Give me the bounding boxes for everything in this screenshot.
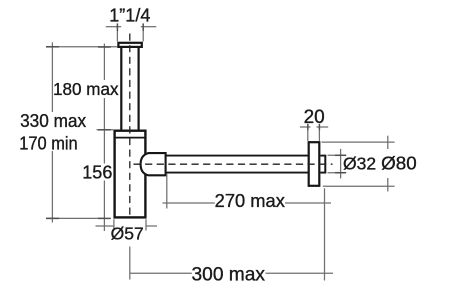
inlet flange nut bbox=[118, 43, 141, 47]
svg-text:156: 156 bbox=[82, 162, 112, 182]
svg-text:300 max: 300 max bbox=[192, 265, 266, 286]
extension line 300 left (body centerline) bbox=[129, 247, 131, 280]
tick 180 top bbox=[98, 46, 111, 48]
extension line 270 left bbox=[166, 174, 168, 209]
dimension line 1"1/4 left segment bbox=[106, 26, 121, 28]
dimension line 1"1/4 right segment bbox=[141, 26, 157, 28]
svg-text:170 min: 170 min bbox=[19, 133, 77, 153]
wall flange rosette bbox=[309, 142, 320, 186]
extension line at body top level (180 max bottom) bbox=[97, 129, 114, 131]
tick 330 top bbox=[46, 46, 59, 48]
dimension line 300 right segment bbox=[266, 272, 334, 274]
extension line flange right corner bbox=[142, 31, 144, 42]
tick 156 bottom bbox=[98, 217, 111, 219]
svg-text:1”1/4: 1”1/4 bbox=[109, 5, 150, 25]
tick 20 left bbox=[307, 124, 309, 131]
outlet stub end wall bbox=[324, 155, 326, 174]
dimension line 330max/170min upper segment bbox=[51, 42, 53, 112]
extension line 20 left bbox=[307, 130, 309, 141]
dimension line 270 left segment bbox=[163, 202, 215, 204]
tick right 1"1/4 bbox=[142, 23, 144, 31]
dimension line 270 right segment bbox=[285, 202, 331, 204]
horizontal pipe top wall bbox=[166, 155, 309, 157]
dimension line 180/156 upper segment bbox=[103, 44, 105, 80]
svg-text:20: 20 bbox=[304, 107, 325, 128]
svg-text:270 max: 270 max bbox=[215, 191, 285, 211]
extension line at body bottom level (to 330 dim) bbox=[46, 217, 104, 219]
svg-text:Ø57: Ø57 bbox=[111, 224, 144, 244]
trap body collar line bbox=[114, 137, 146, 139]
extension line pipe bottom (O32) bbox=[328, 172, 347, 174]
outlet stub bottom wall bbox=[320, 172, 325, 174]
dimension line O57 left segment bbox=[96, 225, 114, 227]
dimension line O32 bbox=[340, 149, 342, 179]
tick O32 bottom bbox=[335, 172, 346, 174]
inlet pipe left wall bbox=[120, 48, 122, 131]
tick 20 right bbox=[318, 124, 320, 131]
extension line O57 right bbox=[145, 219, 147, 230]
extension line flange left corner bbox=[116, 31, 118, 42]
svg-text:Ø80: Ø80 bbox=[381, 154, 417, 174]
horizontal pipe bottom wall bbox=[166, 172, 309, 174]
dimension line 180/156 lower segment bbox=[103, 181, 105, 232]
svg-text:330 max: 330 max bbox=[20, 111, 86, 131]
dimension line 20 right segment bbox=[317, 126, 329, 128]
extension line pipe top (O32) bbox=[328, 154, 347, 156]
extension line O57 left bbox=[113, 219, 115, 230]
extension line 20 right bbox=[318, 130, 320, 141]
tick 330 bottom bbox=[46, 217, 59, 219]
tick 180 bottom / 156 top bbox=[98, 129, 111, 131]
dimension line O80 lower segment bbox=[387, 178, 389, 192]
extension line right shared 270/300 bbox=[324, 188, 326, 280]
svg-text:Ø32: Ø32 bbox=[343, 154, 376, 174]
extension line at flange bottom level (to 330/180 dims) bbox=[46, 46, 117, 48]
dimension line 180/156 middle segment bbox=[103, 98, 105, 164]
svg-text:180 max: 180 max bbox=[53, 79, 119, 99]
tick left 1"1/4 bbox=[116, 23, 118, 31]
dimension line 300 left segment bbox=[130, 272, 192, 274]
dimension line O57 right segment bbox=[146, 225, 157, 227]
side outlet boss bbox=[141, 153, 166, 175]
trap body bbox=[115, 131, 146, 218]
inlet pipe right wall bbox=[138, 48, 140, 131]
tick O32 top bbox=[335, 154, 346, 156]
dimension line 330max/170min lower segment bbox=[51, 151, 53, 223]
dimension line O80 upper segment bbox=[387, 136, 389, 149]
outlet stub top wall bbox=[320, 155, 325, 157]
extension line flange top (O80) bbox=[322, 141, 395, 143]
dimension line 20 left segment bbox=[300, 126, 311, 128]
extension line flange bottom (O80) bbox=[323, 185, 395, 187]
horizontal centerline bbox=[134, 163, 333, 165]
vertical centerline bbox=[129, 34, 131, 218]
